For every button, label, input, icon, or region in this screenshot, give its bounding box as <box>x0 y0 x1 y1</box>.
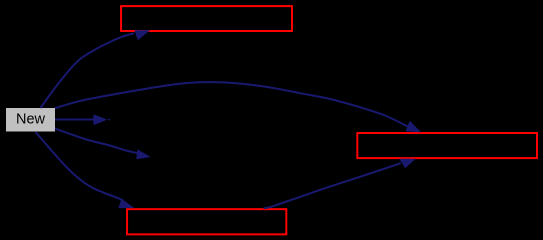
svg-text:New: New <box>16 112 46 128</box>
